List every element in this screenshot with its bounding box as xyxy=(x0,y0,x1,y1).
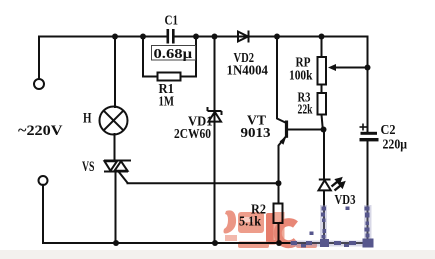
node VD1 bottom xyxy=(212,240,218,246)
resistor R2 xyxy=(274,204,283,224)
blue dot watermark xyxy=(290,205,374,248)
RP wiper arrowhead xyxy=(328,64,336,71)
resistor R3 xyxy=(318,93,327,115)
node gate emitter R2 xyxy=(276,180,282,186)
resistor R1 xyxy=(158,73,181,81)
svg-text:VS: VS xyxy=(82,159,95,175)
node VD3 bottom xyxy=(321,240,327,246)
wire terminal2 stem xyxy=(42,185,44,243)
zener VD1 xyxy=(208,107,222,122)
wire VT base lead xyxy=(287,129,324,131)
wire terminal1 stem xyxy=(38,37,40,79)
wire R3 bottom lead xyxy=(322,115,323,130)
triac VS xyxy=(104,161,131,172)
svg-text:100k: 100k xyxy=(289,69,313,84)
capacitor C1 xyxy=(167,29,175,44)
C2 plus sign xyxy=(360,124,367,131)
wire triac gate diagonal xyxy=(119,172,128,183)
wire R2 top lead xyxy=(278,183,280,203)
wire right rail upper xyxy=(367,37,369,132)
svg-text:VD3: VD3 xyxy=(335,193,356,208)
wire C1 left branch xyxy=(142,37,144,77)
wire R1 right lead xyxy=(181,76,197,78)
node C1 left xyxy=(140,34,146,40)
node base R3 xyxy=(321,127,327,133)
node triac bottom xyxy=(113,240,119,246)
lamp H xyxy=(100,107,128,135)
wire RP wiper xyxy=(332,67,368,69)
VD3 light arrows xyxy=(332,179,344,191)
wire RP top lead xyxy=(321,37,323,58)
svg-text:~220V: ~220V xyxy=(18,123,63,139)
svg-text:0.68μ: 0.68μ xyxy=(154,46,193,61)
svg-text:C1: C1 xyxy=(165,14,179,29)
terminal upper xyxy=(34,79,44,89)
wire VD3 top lead xyxy=(323,130,325,180)
terminal lower xyxy=(39,176,48,185)
wire triac to bottom xyxy=(115,172,117,244)
node VD1 top xyxy=(212,34,218,40)
wire top rail left xyxy=(39,36,167,38)
svg-text:C2: C2 xyxy=(381,123,396,138)
wire right rail lower xyxy=(367,141,369,243)
svg-text:9013: 9013 xyxy=(241,126,271,141)
wire VD1 branch vertical xyxy=(214,37,216,244)
node RP top xyxy=(319,34,325,40)
node lamp top xyxy=(112,34,118,40)
potentiometer RP xyxy=(318,57,327,85)
scan artifact band bottom xyxy=(0,250,435,259)
wire C1 right branch xyxy=(195,37,197,77)
wire gate horizontal xyxy=(128,182,279,184)
svg-text:22k: 22k xyxy=(298,103,313,118)
wire R1 left lead xyxy=(143,76,158,78)
wire R2 bottom lead xyxy=(278,223,280,243)
C1 value box xyxy=(152,46,196,61)
node VT collector top xyxy=(274,34,280,40)
node R2 bottom xyxy=(276,240,282,246)
node wiper right xyxy=(365,65,371,71)
svg-text:1M: 1M xyxy=(159,95,175,110)
LED VD3 xyxy=(319,180,331,191)
wire lamp top xyxy=(114,37,116,108)
wire VD3 bottom lead xyxy=(323,191,325,243)
wire top rail right xyxy=(175,36,368,38)
wire lamp to triac xyxy=(114,134,116,161)
capacitor C2 xyxy=(360,132,379,142)
diode VD2 xyxy=(238,31,249,43)
red stamp watermark xyxy=(224,210,318,248)
VT emitter arrow xyxy=(280,136,287,145)
svg-text:2CW60: 2CW60 xyxy=(174,127,211,142)
svg-text:1N4004: 1N4004 xyxy=(227,64,269,79)
wire VT emitter down xyxy=(279,136,287,183)
svg-text:H: H xyxy=(83,111,92,127)
wire RP to R3 xyxy=(321,85,323,94)
wire VT collector from rail xyxy=(277,37,286,123)
wire bottom rail xyxy=(43,242,369,244)
svg-text:220μ: 220μ xyxy=(383,138,408,153)
node C1 right xyxy=(193,34,199,40)
transistor VT xyxy=(285,121,288,138)
